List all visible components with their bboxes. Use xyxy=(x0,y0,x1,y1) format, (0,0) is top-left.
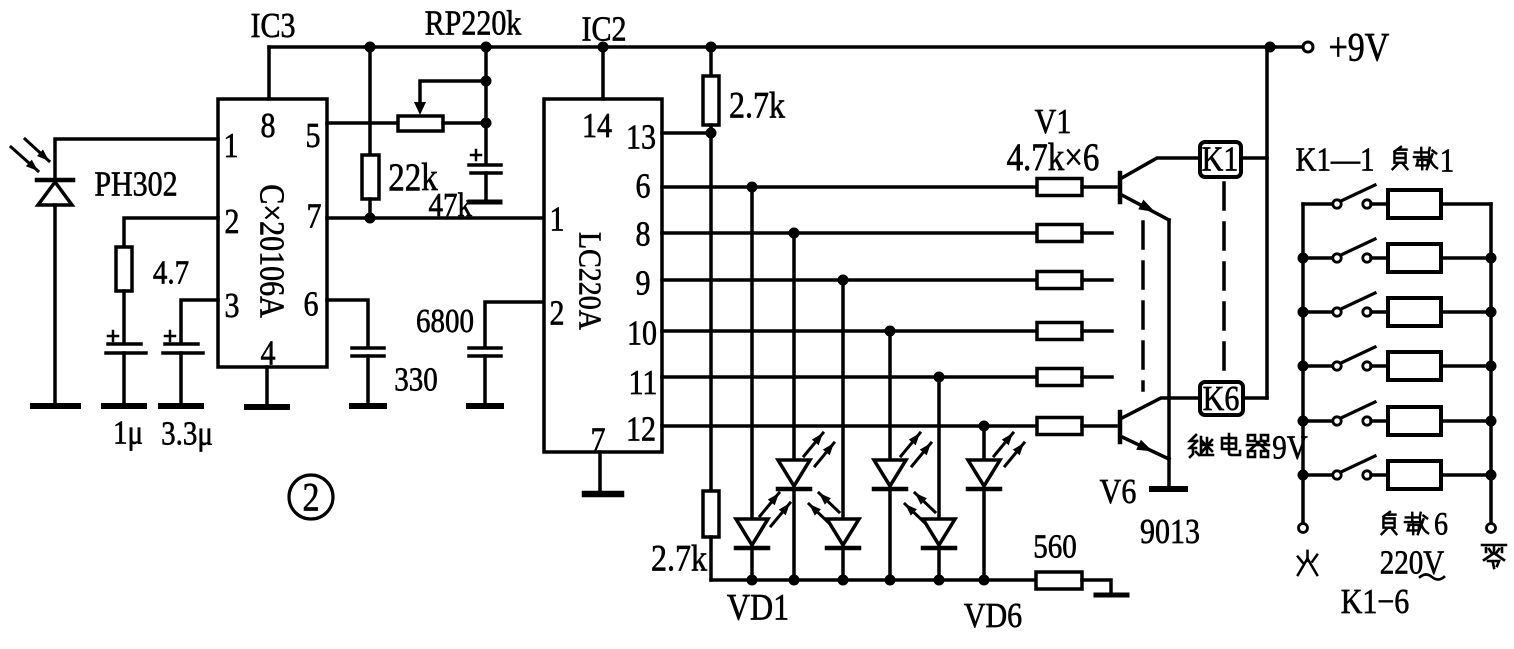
svg-text:6: 6 xyxy=(1434,506,1448,543)
svg-text:1μ: 1μ xyxy=(113,413,143,451)
svg-text:3: 3 xyxy=(225,287,240,326)
svg-text:12: 12 xyxy=(626,411,656,450)
svg-text:5: 5 xyxy=(306,117,321,156)
svg-text:C×20106A: C×20106A xyxy=(253,184,291,318)
svg-text:9013: 9013 xyxy=(1140,513,1200,552)
svg-text:4.7k×6: 4.7k×6 xyxy=(1007,135,1100,178)
svg-text:9: 9 xyxy=(636,265,651,304)
svg-text:IC3: IC3 xyxy=(251,7,296,46)
svg-text:2: 2 xyxy=(225,203,240,242)
svg-text:2.7k: 2.7k xyxy=(651,537,708,579)
svg-text:7: 7 xyxy=(307,198,322,237)
svg-text:K1: K1 xyxy=(1202,141,1239,180)
svg-text:560: 560 xyxy=(1033,527,1076,565)
svg-text:330: 330 xyxy=(394,360,437,398)
svg-text:IC2: IC2 xyxy=(582,11,627,50)
svg-text:V6: V6 xyxy=(1100,473,1137,512)
svg-text:6800: 6800 xyxy=(416,302,474,340)
svg-text:1: 1 xyxy=(550,201,565,240)
svg-text:3.3μ: 3.3μ xyxy=(161,414,213,452)
svg-text:K1—1: K1—1 xyxy=(1296,140,1375,178)
svg-text:13: 13 xyxy=(626,119,656,158)
svg-text:1: 1 xyxy=(224,127,239,166)
svg-text:PH302: PH302 xyxy=(94,166,177,205)
svg-text:14: 14 xyxy=(582,107,612,146)
svg-text:47k: 47k xyxy=(429,186,473,224)
svg-text:VD6: VD6 xyxy=(964,597,1022,636)
svg-text:2.7k: 2.7k xyxy=(729,84,786,126)
svg-text:K1−6: K1−6 xyxy=(1341,583,1410,622)
svg-text:6: 6 xyxy=(636,168,651,207)
svg-text:+9V: +9V xyxy=(1329,26,1390,70)
svg-text:4.7: 4.7 xyxy=(153,253,189,291)
svg-text:VD1: VD1 xyxy=(727,586,789,628)
svg-text:220V: 220V xyxy=(1380,543,1445,581)
svg-text:RP220k: RP220k xyxy=(425,5,522,44)
svg-text:6: 6 xyxy=(304,286,319,325)
svg-text:11: 11 xyxy=(629,364,658,403)
svg-text:2: 2 xyxy=(303,476,320,520)
svg-text:8: 8 xyxy=(636,216,651,255)
svg-text:1: 1 xyxy=(1440,141,1455,179)
svg-text:7: 7 xyxy=(591,422,606,461)
svg-text:LC220A: LC220A xyxy=(572,232,608,330)
svg-text:2: 2 xyxy=(550,295,565,334)
svg-text:K6: K6 xyxy=(1203,380,1240,419)
svg-text:8: 8 xyxy=(261,107,276,146)
svg-text:10: 10 xyxy=(627,315,657,354)
svg-text:9V: 9V xyxy=(1272,428,1308,466)
